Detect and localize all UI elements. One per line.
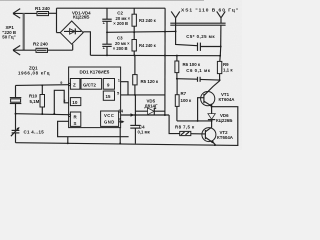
svg-text:7: 7 bbox=[119, 118, 121, 122]
wire pin5 node y95 bbox=[121, 94, 165, 96]
wire to bridge left vertex bbox=[57, 32, 61, 34]
svg-text:14: 14 bbox=[118, 108, 123, 113]
XP1 plug bar bbox=[23, 13, 25, 50]
wire bridge bottom to R2 bbox=[72, 44, 74, 50]
svg-text:VCC: VCC bbox=[104, 113, 114, 118]
svg-text:КЦ226Б: КЦ226Б bbox=[216, 118, 232, 123]
wire R1 junction vertical bbox=[56, 8, 58, 32]
socket XS1 bbox=[170, 11, 225, 25]
wire bottom rail bbox=[16, 143, 239, 146]
capacitor C2 bbox=[102, 19, 111, 25]
wire C2/C3 column bbox=[106, 8, 108, 55]
trimmer capacitor C1 bbox=[11, 114, 20, 143]
capacitor C4 label bbox=[138, 125, 151, 135]
wire C4 column bbox=[134, 95, 136, 144]
gnd pin arrow bbox=[119, 120, 125, 123]
resistor R7 bbox=[175, 79, 179, 121]
svg-text:КЦ226Б: КЦ226Б bbox=[73, 15, 89, 20]
pin label 2 bbox=[63, 99, 65, 103]
svg-text:R8 7,5 к: R8 7,5 к bbox=[175, 125, 195, 130]
svg-text:9: 9 bbox=[60, 81, 62, 85]
wire R8 to VT2 base bbox=[191, 133, 206, 135]
wire mid rail bbox=[107, 30, 176, 33]
svg-text:DD1 К176ИЕ5: DD1 К176ИЕ5 bbox=[80, 69, 110, 74]
wire oscillator top bbox=[16, 84, 69, 87]
svg-text:C2: C2 bbox=[117, 11, 123, 16]
pin label 9 bbox=[60, 81, 62, 85]
resistor R8 bbox=[180, 131, 191, 135]
wire oscillator bottom bbox=[16, 114, 69, 115]
wire pin1 of DD1 bbox=[121, 82, 128, 95]
wire bridge right vertex bbox=[83, 32, 90, 56]
svg-text:S: S bbox=[74, 121, 77, 126]
zener VD5 bbox=[135, 108, 165, 115]
resistor R2 bbox=[36, 48, 48, 52]
svg-text:× 200 В: × 200 В bbox=[113, 46, 128, 51]
wire gnd stub bbox=[67, 137, 69, 144]
resistor R9 bbox=[217, 56, 221, 80]
svg-text:КТ604А: КТ604А bbox=[219, 97, 236, 102]
svg-text:C5* 0,25 мк: C5* 0,25 мк bbox=[186, 34, 215, 39]
diode VD6 bbox=[208, 107, 215, 128]
wire S pin loop bbox=[58, 121, 129, 136]
wire long vertical x165 bbox=[164, 8, 166, 115]
capacitor C4 bbox=[130, 125, 140, 128]
transistor VT1 bbox=[201, 81, 220, 107]
svg-text:2: 2 bbox=[63, 99, 65, 103]
XP1 plug prong lower bbox=[13, 46, 20, 56]
wire main rail y55 bbox=[90, 54, 220, 56]
wire XS1 right stem bbox=[219, 25, 222, 56]
resistor R6 bbox=[175, 56, 179, 79]
IC DD1 K176IE5 bbox=[68, 67, 120, 128]
XP1 plug prong upper bbox=[13, 9, 20, 19]
resistor R3 bbox=[132, 8, 136, 32]
svg-text:R10: R10 bbox=[29, 93, 38, 98]
svg-text:15: 15 bbox=[106, 94, 111, 99]
svg-text:10: 10 bbox=[72, 100, 78, 105]
svg-text:R1 240: R1 240 bbox=[35, 6, 50, 11]
svg-text:R6 100 к: R6 100 к bbox=[183, 62, 201, 67]
resistor R10 bbox=[40, 85, 45, 114]
wire XS1 left stem to mid rail bbox=[176, 25, 198, 46]
svg-text:C6 0,1 мк: C6 0,1 мк bbox=[186, 68, 210, 73]
svg-text:R7: R7 bbox=[181, 91, 187, 96]
svg-text:R3 240 к: R3 240 к bbox=[139, 18, 157, 23]
svg-text:R2 240: R2 240 bbox=[33, 41, 48, 46]
svg-text:C1 4...15: C1 4...15 bbox=[24, 130, 45, 135]
svg-text:100 к: 100 к bbox=[181, 98, 193, 103]
wire VT1 base bbox=[198, 98, 204, 121]
svg-text:C3: C3 bbox=[117, 36, 123, 41]
wire VT1 emitter out bbox=[213, 107, 238, 146]
wire pin2 loop bbox=[53, 90, 68, 114]
wire chip ground bbox=[119, 128, 121, 144]
svg-text:КТ604А: КТ604А bbox=[217, 135, 234, 140]
svg-text:1,1 к: 1,1 к bbox=[223, 68, 233, 73]
resistor R1 bbox=[37, 12, 49, 16]
resistor R5 bbox=[133, 55, 137, 95]
svg-text:XS1 "110 В 60 Гц": XS1 "110 В 60 Гц" bbox=[181, 8, 239, 14]
pin label 7 bbox=[119, 118, 121, 122]
transistor VT2 bbox=[202, 127, 216, 145]
page edge bbox=[0, 0, 204, 2]
wire pin14 of DD1 bbox=[121, 113, 170, 116]
wire R1 row bbox=[13, 12, 57, 14]
wire top rail bbox=[57, 7, 166, 9]
svg-text:R5 120 к: R5 120 к bbox=[141, 79, 159, 84]
svg-text:0,1 мк: 0,1 мк bbox=[138, 129, 151, 134]
resistor R4 bbox=[132, 32, 136, 55]
svg-text:1966,08 кГц: 1966,08 кГц bbox=[18, 71, 50, 76]
svg-text:Д814Г: Д814Г bbox=[145, 103, 158, 108]
svg-text:R4 240 к: R4 240 к bbox=[139, 43, 157, 48]
diode bridge VD1-VD4 bbox=[60, 21, 83, 44]
svg-text:R9: R9 bbox=[223, 62, 229, 67]
wire base row y121 bbox=[177, 120, 212, 122]
svg-text:× 200 В: × 200 В bbox=[113, 21, 128, 26]
svg-text:5,1М: 5,1М bbox=[30, 99, 40, 104]
svg-text:Z: Z bbox=[73, 83, 76, 88]
svg-text:50 Гц": 50 Гц" bbox=[2, 35, 15, 40]
wire to R8 bbox=[169, 115, 180, 134]
capacitor C3 bbox=[102, 44, 111, 50]
svg-text:GND: GND bbox=[104, 120, 115, 125]
svg-text:G/CT2: G/CT2 bbox=[83, 82, 96, 87]
crystal ZQ1 bbox=[10, 85, 21, 113]
capacitor C6 bbox=[177, 77, 220, 82]
capacitor C5 bbox=[198, 43, 221, 51]
wire R2 row bbox=[13, 49, 73, 51]
